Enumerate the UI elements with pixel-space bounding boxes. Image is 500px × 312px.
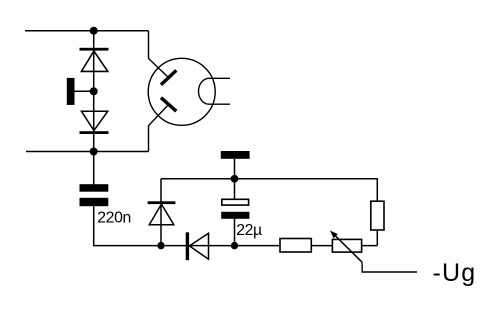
tube heater arc [199,78,209,104]
tube lower lead [149,105,169,152]
diode D1 (pointing up) [80,48,109,72]
junction dot 22u bottom [231,242,238,249]
diode D4 (pointing left) [186,232,209,260]
tube upper electrode bar [161,70,176,84]
capacitor 22u (electrolytic) [221,199,249,219]
svg-text:-Ug: -Ug [433,259,477,287]
junction dot between diodes [90,87,98,95]
junction dot D3 bottom [157,242,164,249]
svg-text:22µ: 22µ [236,222,262,239]
wiper arrowhead [330,231,338,239]
wire vertical through D1/D2 [93,31,95,185]
grid electrode bar [67,78,75,105]
wire mid rail to 22u top plate [234,179,236,199]
junction dot bottom rail [90,148,98,156]
wire vertical through D3 [160,179,162,246]
junction dot top rail [90,27,98,35]
tube envelope circle [148,58,215,125]
capacitor 220n [80,184,109,206]
wire top rail left [25,30,149,32]
svg-text:220n: 220n [97,210,131,227]
wire bottom rail left [26,151,149,153]
resistor R1 (horizontal) [280,239,311,253]
potentiometer P1 [330,231,417,273]
wire 22u bottom plate to bottom rail [234,219,236,246]
diode D3 (pointing up) [148,201,176,225]
tube upper lead [149,31,169,78]
wire 220n bottom, down and right [94,206,161,246]
tube V1 [148,31,230,152]
wiper output wire [362,262,417,272]
wire bottom rail right [161,245,377,247]
tube heater lead bottom [209,103,230,105]
wiper diagonal [332,233,362,263]
wire terminal bar to mid rail [234,159,236,179]
wire mid rail (y=178.8) [161,179,377,246]
wire grid bar to junction [75,90,94,92]
junction dot mid rail [231,175,239,183]
tube heater lead top [209,77,230,79]
terminal bar over 22u [221,151,250,159]
resistor R2 (vertical) [371,201,384,230]
diode D2 (pointing down) [80,111,109,134]
tube lower electrode bar [161,98,176,112]
